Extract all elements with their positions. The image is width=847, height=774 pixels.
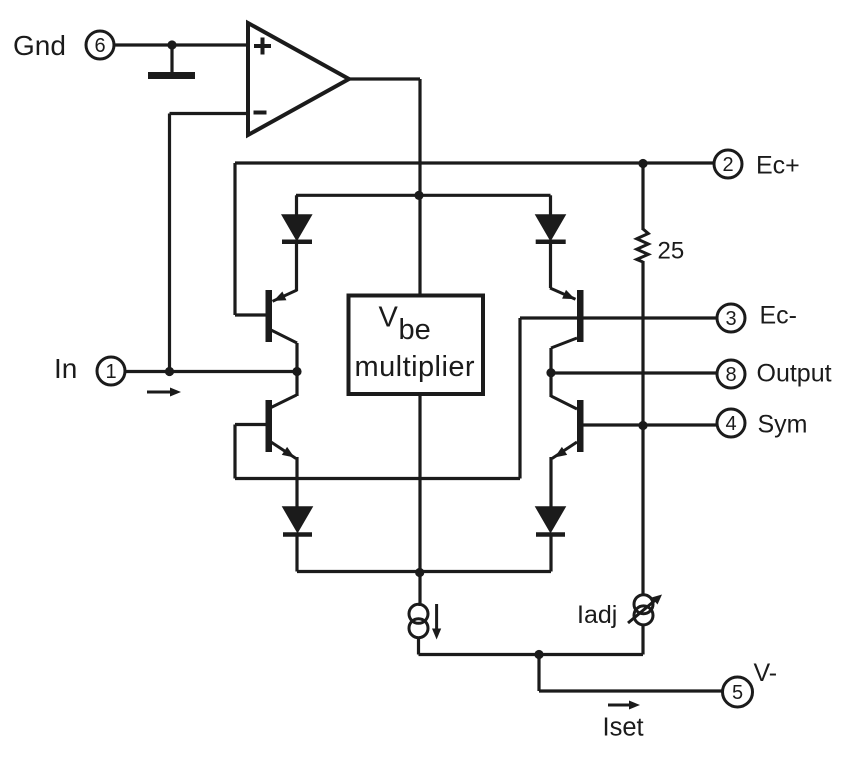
op-amp U1	[248, 23, 349, 135]
wire Q3 base drop	[233, 425, 236, 479]
svg-text:Ec-: Ec-	[760, 302, 798, 330]
wire to pin 8	[551, 371, 717, 374]
arrow I1 direction	[432, 604, 441, 640]
arrow Iset	[608, 701, 640, 710]
wire output vertical to Vbe box	[418, 79, 421, 295]
svg-text:6: 6	[94, 35, 105, 57]
svg-text:multiplier: multiplier	[355, 351, 476, 383]
wire I1 to V- rail	[417, 637, 420, 655]
node V- junction	[534, 650, 543, 659]
svg-text:25: 25	[658, 238, 685, 265]
wire op-amp output	[349, 77, 420, 80]
wire pin6 to op-amp +	[115, 43, 249, 46]
wire Ec+ rail	[235, 161, 714, 164]
pin 3	[717, 304, 745, 332]
diode D1	[282, 195, 312, 291]
svg-text:1: 1	[105, 361, 116, 383]
transistor Q4	[552, 400, 584, 459]
node gnd junction	[167, 40, 176, 49]
pin 1	[97, 357, 125, 385]
svg-text:Gnd: Gnd	[13, 30, 66, 61]
wire Q1 base	[235, 313, 266, 316]
wire gnd stub	[170, 45, 173, 72]
wire Q2 base left	[520, 316, 577, 319]
wire In	[126, 370, 298, 373]
arrow In current	[147, 388, 181, 397]
svg-text:5: 5	[732, 682, 743, 704]
wire Q4 emitter stub	[549, 457, 552, 508]
svg-text:V: V	[379, 302, 399, 334]
wire resistor to Iadj	[641, 261, 644, 596]
resistor 25	[637, 229, 649, 262]
wire output net to Q4	[551, 373, 577, 409]
diode D4	[536, 507, 565, 572]
diode D3	[283, 507, 312, 572]
wire op-amp inverting input	[170, 112, 249, 115]
wire Q3 emitter stub	[295, 457, 298, 508]
transistor Q3	[266, 400, 297, 459]
wire Q3 base	[235, 423, 266, 426]
wire inverting input vertical	[168, 114, 171, 372]
svg-text:V-: V-	[754, 659, 778, 687]
node input net junction	[292, 367, 301, 376]
svg-text:In: In	[54, 353, 77, 384]
svg-text:Sym: Sym	[758, 411, 808, 439]
wire input net to Q3	[271, 372, 297, 408]
Vbe multiplier box	[349, 296, 484, 395]
svg-text:be: be	[399, 314, 431, 346]
svg-text:Output: Output	[757, 360, 832, 388]
wire Ec- cross link horizontal	[235, 477, 520, 480]
pin 8	[717, 360, 745, 388]
pin 2	[714, 150, 742, 178]
wire Iadj to V- rail	[641, 624, 644, 655]
pin 6	[86, 31, 114, 59]
wire Vbe box to bottom rail	[418, 394, 421, 606]
node In junction	[165, 367, 174, 376]
wire Ec+ rail drop	[233, 163, 236, 315]
diode D2	[536, 195, 566, 288]
svg-text:Iset: Iset	[603, 714, 644, 742]
pin 4	[717, 409, 745, 437]
wire Q2 collector stub	[549, 348, 552, 373]
wire Q1 collector stub	[295, 343, 298, 372]
svg-text:Iadj: Iadj	[577, 601, 617, 629]
ground	[148, 72, 195, 79]
wire bottom diode rail	[297, 570, 551, 573]
transistor Q1	[266, 290, 298, 343]
node rail-resistor junction	[638, 159, 647, 168]
node sym junction	[638, 421, 647, 430]
svg-text:4: 4	[725, 413, 736, 435]
wire Ec- cross link vertical	[518, 318, 521, 479]
svg-text:2: 2	[722, 154, 733, 176]
svg-text:3: 3	[725, 308, 736, 330]
svg-text:8: 8	[725, 364, 736, 386]
arrow Iadj adjustable	[628, 595, 662, 624]
node output net junction	[546, 368, 555, 377]
node bottom rail junction	[415, 568, 424, 577]
wire Q4 base to pin 4	[584, 423, 718, 426]
transistor Q2	[550, 288, 584, 348]
wire top diode rail	[296, 194, 551, 197]
current source I2 Iadj	[634, 595, 653, 625]
wire V- drop	[539, 655, 723, 692]
current source I1	[409, 604, 428, 637]
wire V- rail	[419, 653, 644, 656]
svg-text:Ec+: Ec+	[756, 152, 800, 180]
wire Ec+ rail to resistor	[641, 163, 644, 230]
pin 5	[723, 677, 753, 707]
node output-rail junction	[414, 191, 423, 200]
wire Q2 base to pin 3	[584, 316, 718, 319]
